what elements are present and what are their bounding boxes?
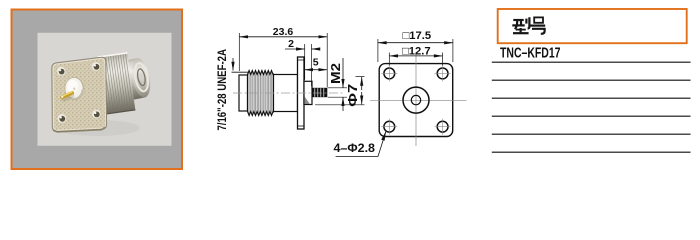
front view square flange xyxy=(370,52,467,146)
side view smooth section xyxy=(274,75,298,112)
model table header box xyxy=(498,9,687,43)
rear shell and end cap xyxy=(113,57,154,103)
svg-text:23.6: 23.6 xyxy=(273,26,294,38)
dimension M2 xyxy=(328,58,347,111)
svg-text:2: 2 xyxy=(288,38,294,50)
号 middle horizontal xyxy=(530,25,545,27)
dimension phi7 xyxy=(315,77,365,107)
型 left 开 part xyxy=(513,19,523,21)
knurled coupling nut xyxy=(98,53,136,114)
front view center circles xyxy=(403,87,429,113)
photo panel orange frame xyxy=(12,10,183,170)
型 bottom 土 xyxy=(519,28,521,33)
side view M2 stub xyxy=(312,88,327,97)
label 4-phi2.8 leader xyxy=(334,131,386,156)
dimension 2 xyxy=(285,38,319,86)
型 right 刂 part xyxy=(525,19,527,24)
dimension 12.7 xyxy=(389,45,442,65)
dimension 5 xyxy=(304,57,327,70)
thread spec text 7/16-28UNEF-2A xyxy=(215,49,229,131)
svg-text:Φ7: Φ7 xyxy=(345,84,360,107)
photo connector flange xyxy=(52,57,107,132)
svg-text:4–Φ2.8: 4–Φ2.8 xyxy=(334,141,376,155)
svg-text:TNC–KFD17: TNC–KFD17 xyxy=(500,45,561,61)
svg-text:7/16"-28 UNEF-2A: 7/16"-28 UNEF-2A xyxy=(215,49,229,131)
svg-text:□17.5: □17.5 xyxy=(403,30,432,42)
model number text TNC-KFD17 xyxy=(500,45,561,61)
side view threaded section 7/16-28 xyxy=(248,71,274,116)
photo center pin xyxy=(61,92,72,100)
photo connector body cylinder xyxy=(98,53,154,114)
dimension 17.5 xyxy=(378,30,453,62)
flange holes xyxy=(57,62,101,123)
photo insulator disc xyxy=(65,77,84,100)
small arrow marker near cap xyxy=(232,58,249,72)
header text 型号 (drawn strokes) xyxy=(512,17,545,34)
side view centerline xyxy=(233,92,344,94)
号 top 口 xyxy=(534,17,543,22)
side view flange plate xyxy=(298,57,305,129)
side view left cap xyxy=(239,75,248,111)
dimension 23.6 xyxy=(239,26,327,87)
号 bottom hook xyxy=(532,29,545,34)
side view rear body phi7 xyxy=(304,81,312,104)
table rule lines xyxy=(492,62,691,152)
svg-text:5: 5 xyxy=(313,57,319,69)
photo soft shadow xyxy=(56,120,140,136)
svg-text:M2: M2 xyxy=(328,63,343,84)
front view holes xyxy=(381,65,450,134)
